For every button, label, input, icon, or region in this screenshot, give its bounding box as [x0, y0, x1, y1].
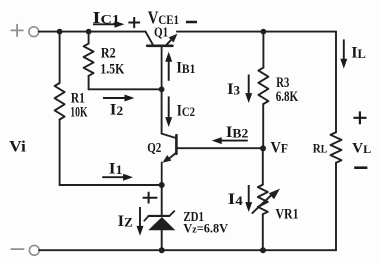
- svg-text:1.5K: 1.5K: [100, 61, 124, 77]
- current arrow I3 (down): [245, 75, 252, 104]
- plus sign at Q1 collector: [128, 17, 140, 28]
- input + terminal symbol: [11, 25, 23, 37]
- node VF dot: [260, 145, 266, 151]
- plus sign at VL: [353, 111, 366, 124]
- current arrow IC1: [93, 21, 124, 28]
- wire emitter node down to zener: [161, 185, 163, 216]
- wire right rail upper: [335, 32, 337, 133]
- wire zener to bottom wire: [161, 230, 163, 250]
- svg-text:Q2: Q2: [147, 141, 161, 156]
- svg-text:10K: 10K: [70, 104, 87, 120]
- node dot R3 top: [261, 29, 267, 35]
- svg-text:RL: RL: [313, 140, 328, 155]
- current arrow I2: [103, 95, 134, 102]
- bottom wire: [39, 249, 336, 251]
- input - terminal symbol: [11, 248, 23, 250]
- input - terminal circle: [29, 245, 39, 255]
- wire I2 horizontal to Q1 base line: [89, 88, 162, 90]
- svg-text:IC2: IC2: [177, 103, 195, 120]
- svg-text:IL: IL: [351, 44, 366, 61]
- minus sign at VL: [354, 166, 367, 169]
- input + terminal circle: [29, 27, 39, 37]
- transistor Q2: [162, 134, 177, 185]
- current arrow IZ (down): [137, 207, 144, 236]
- svg-text:6.8K: 6.8K: [276, 89, 299, 105]
- svg-text:R2: R2: [101, 45, 116, 61]
- wire Q2 base to node VF: [178, 147, 263, 149]
- wire Q1 base line to Q2 collector: [161, 89, 163, 133]
- svg-text:I3: I3: [227, 81, 240, 98]
- svg-text:I4: I4: [228, 191, 244, 208]
- potentiometer VR1: [252, 185, 280, 215]
- svg-text:Vi: Vi: [9, 138, 27, 155]
- resistor R3: [258, 68, 268, 104]
- wire VF to VR1: [262, 148, 264, 184]
- resistor R2: [84, 44, 94, 76]
- svg-text:VR1: VR1: [276, 207, 299, 223]
- node dot R1 top: [57, 29, 63, 35]
- wire R2 branch upper: [88, 32, 90, 44]
- svg-text:IC1: IC1: [93, 8, 120, 27]
- wire R2 bottom to I2 corner: [88, 76, 90, 90]
- wire I1 horizontal to emitter node: [60, 184, 162, 186]
- node dot R2 top: [86, 29, 92, 35]
- current arrow IC2 (down): [165, 96, 172, 127]
- junction dot I2 / base line: [159, 86, 165, 92]
- svg-text:IZ: IZ: [118, 213, 133, 230]
- junction dot VR1 bottom: [260, 247, 266, 253]
- wire R1 bottom to I1 wire corner: [59, 120, 61, 186]
- wire VR1 to bottom: [262, 214, 264, 250]
- svg-text:IB2: IB2: [226, 124, 248, 141]
- svg-text:VL: VL: [352, 140, 371, 156]
- svg-text:Q1: Q1: [154, 25, 168, 40]
- resistor R1: [55, 83, 65, 120]
- svg-text:I1: I1: [109, 160, 123, 177]
- svg-text:VF: VF: [271, 139, 289, 156]
- wire R1 branch upper: [59, 32, 61, 83]
- junction dot zener bottom: [159, 247, 165, 253]
- current arrow I4 (down): [245, 185, 252, 212]
- current arrow I1: [102, 174, 133, 181]
- transistor Q1: [146, 32, 178, 90]
- resistor RL: [331, 132, 342, 162]
- wire R3 bottom to node VF: [262, 104, 264, 148]
- current arrow IB1 (up): [165, 52, 172, 81]
- wire top right from Q1 emitter to right corner: [177, 31, 336, 33]
- junction dot I1 / emitter: [159, 182, 165, 188]
- minus sign at Q1 emitter: [186, 21, 197, 24]
- wire top from + terminal to Q1 collector: [39, 31, 146, 33]
- zener diode ZD1: [144, 211, 175, 230]
- svg-text:IB1: IB1: [176, 60, 195, 77]
- plus sign above zener: [143, 192, 158, 204]
- svg-text:Vz=6.8V: Vz=6.8V: [183, 221, 228, 236]
- current arrow IL (down): [340, 39, 347, 68]
- wire R3 top segment: [262, 32, 264, 68]
- wire right rail lower: [335, 163, 337, 251]
- svg-text:I2: I2: [110, 101, 123, 118]
- current arrow IB2 (left): [212, 137, 248, 144]
